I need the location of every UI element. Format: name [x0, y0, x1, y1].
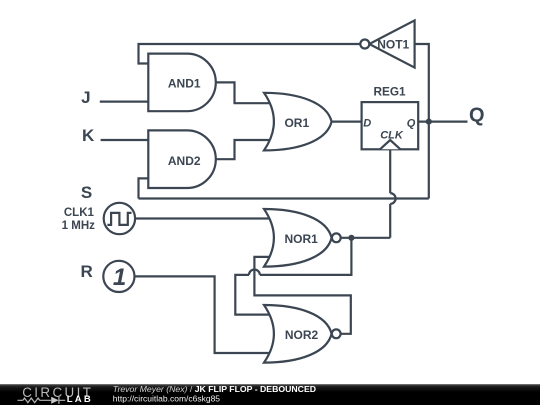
- svg-text:http://circuitlab.com/c6skg85: http://circuitlab.com/c6skg85: [113, 393, 221, 403]
- svg-text:NOR1: NOR1: [285, 232, 319, 246]
- svg-text:NOT1: NOT1: [377, 37, 409, 51]
- svg-text:OR1: OR1: [284, 116, 309, 130]
- svg-text:AND2: AND2: [168, 154, 201, 168]
- svg-text:R: R: [81, 262, 93, 281]
- svg-text:Q: Q: [469, 105, 485, 127]
- svg-text:K: K: [82, 126, 95, 145]
- svg-text:D: D: [363, 118, 371, 130]
- svg-text:1 MHz: 1 MHz: [62, 220, 95, 232]
- svg-text:NOR2: NOR2: [285, 328, 319, 342]
- svg-text:J: J: [81, 88, 90, 107]
- svg-text:Q: Q: [407, 118, 416, 130]
- svg-text:CLK1: CLK1: [64, 207, 95, 219]
- svg-text:LAB: LAB: [67, 394, 93, 405]
- svg-text:REG1: REG1: [373, 85, 406, 99]
- svg-text:CLK: CLK: [380, 129, 404, 141]
- svg-text:S: S: [81, 183, 92, 202]
- svg-text:AND1: AND1: [168, 77, 201, 91]
- svg-text:1: 1: [113, 264, 126, 291]
- svg-text:Trevor Meyer (Nex) / JK FLIP F: Trevor Meyer (Nex) / JK FLIP FLOP - DEBO…: [113, 384, 316, 394]
